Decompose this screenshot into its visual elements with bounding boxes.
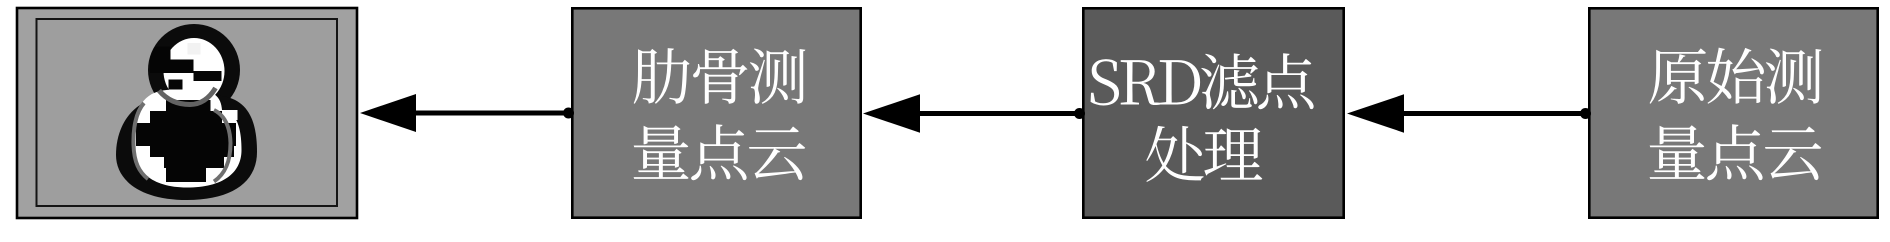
text line 2 of box 原始测量点云: 量点云 [1650,124,1822,180]
person icon: body white shirt covering ring bottom [133,89,241,187]
person icon: faint gray block in head top [188,43,201,55]
text line 1 of box 肋骨测量点云: 肋骨测 [634,48,806,104]
person icon: gray arc right side of body [214,110,231,182]
arrow 2 tail junction dot [1074,108,1085,119]
text line 1 of box 原始测量点云: 原始测 [1650,48,1822,104]
photo box outer frame [17,8,357,218]
arrow 2 shaft wire [918,111,1082,116]
person icon: torso black cross blocks (staircase) [136,100,236,182]
person icon: gray collar neckline arc [159,88,216,105]
text line 2 of box 肋骨测量点云: 量点云 [634,124,806,180]
photo box inner frame [37,19,338,206]
flow box: SRD滤点处理 [1083,8,1343,217]
flow box: 肋骨测量点云 [572,8,860,217]
text line 2 of box SRD滤点处理: 处理 [1146,126,1262,182]
person icon: black blocks in head [150,47,222,90]
person icon: head outer black ring [148,24,240,116]
arrow 3 head: box4 -> box3 [1347,94,1404,132]
arrow 3 shaft wire [1402,111,1588,116]
person icon: body outer black blob [116,94,257,200]
person icon: head white face [164,38,225,104]
arrow 1 shaft wire [414,111,571,116]
text line 1 of box SRD滤点处理: SRD滤点 [1091,53,1314,109]
person icon: gray arc left side of body [133,103,148,179]
arrow 2 head: box3 -> box2 [863,94,920,132]
arrow 3 tail junction dot [1580,108,1591,119]
arrow 1 tail junction dot [563,108,574,119]
person icon: white pocket right of neck (bitmap block) [222,110,238,120]
arrow 1 head: box2 -> photo box [360,94,416,132]
flow box: 原始测量点云 [1589,8,1877,217]
